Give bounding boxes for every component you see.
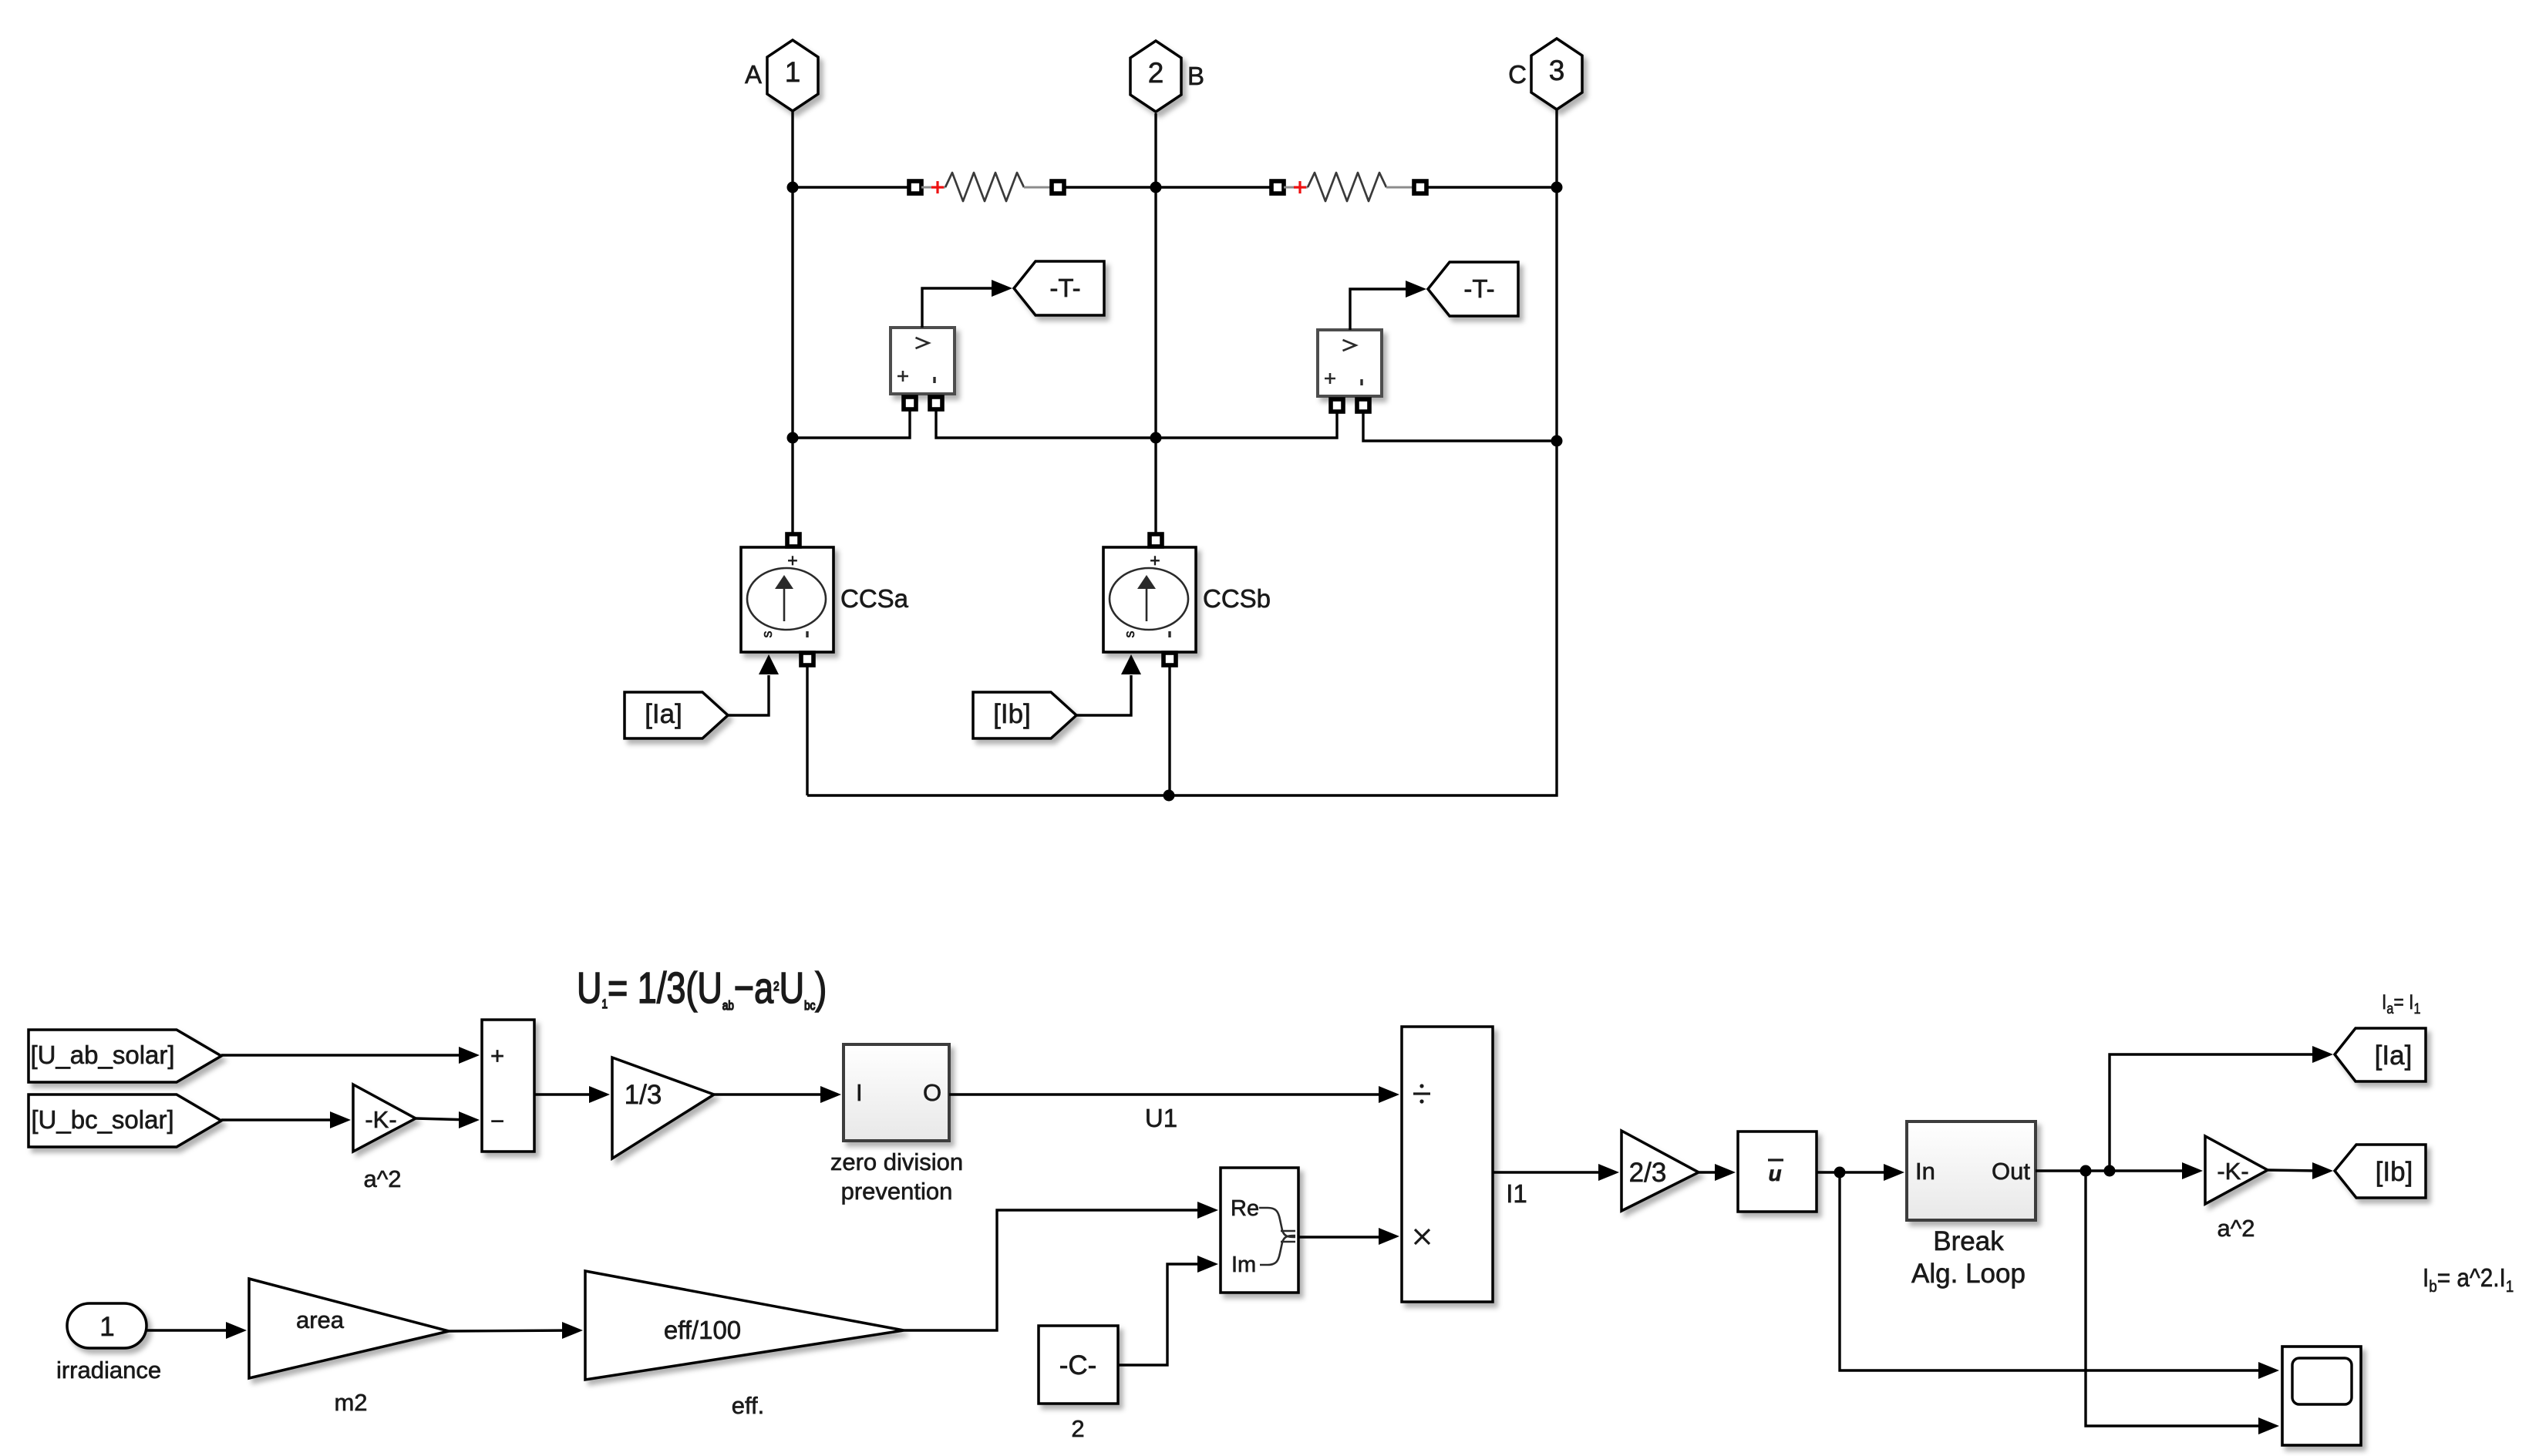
wire: branch down to scope input 1: [1840, 1172, 2271, 1370]
svg-text:-C-: -C-: [1059, 1350, 1097, 1380]
wire: sum to gain 1/3: [534, 1093, 602, 1095]
svg-text:-K-: -K-: [2217, 1158, 2248, 1185]
wire: irradiance to gain area: [146, 1329, 239, 1331]
wire: sensor row A segment: [793, 408, 910, 438]
junction: out branch to [Ia]: [2104, 1165, 2116, 1177]
junction: node A / sensor row: [787, 432, 799, 444]
wire: port A vertical (net A): [791, 110, 793, 535]
current source CCSb: [1103, 547, 1196, 652]
gain 2/3: [1621, 1131, 1699, 1211]
gain 1/3: [612, 1058, 714, 1158]
wire: branch down to scope input 2: [2086, 1171, 2271, 1426]
voltage sensor V1: [891, 328, 955, 394]
wire: Break out to gain a^2 (right): [2036, 1169, 2195, 1172]
svg-text:m2: m2: [334, 1389, 367, 1416]
svg-text:A: A: [745, 60, 762, 89]
svg-text:−: −: [490, 1108, 504, 1135]
wire: [Ib] to CCSb control input: [1076, 675, 1131, 715]
svg-text:I1: I1: [1506, 1179, 1527, 1208]
wire: gain a^2 to goto [Ib]: [2268, 1170, 2319, 1171]
svg-text:a^2: a^2: [2217, 1215, 2255, 1242]
goto tag [Ib] (output): [2335, 1145, 2426, 1198]
svg-text:area: area: [296, 1306, 345, 1333]
svg-text:CCSb: CCSb: [1203, 584, 1271, 613]
from tag [Ia]: [625, 692, 728, 738]
svg-text:[Ia]: [Ia]: [2375, 1041, 2413, 1071]
wire: resistor row A-B segment: [793, 186, 909, 188]
svg-text:[Ia]: [Ia]: [645, 699, 682, 729]
wire: gain eff/100 to Re input: [904, 1210, 1211, 1330]
current source CCSa: [741, 547, 833, 652]
svg-text:I: I: [856, 1079, 863, 1106]
svg-text:eff.: eff.: [732, 1392, 765, 1419]
junction: node B / sensor row: [1150, 432, 1162, 444]
wire: resistor row B-C segment: [1156, 186, 1272, 188]
wire: gain 2/3 to u-conj block: [1699, 1171, 1728, 1173]
wire: port C vertical (net C): [807, 108, 1557, 795]
junction: node C / sensor row: [1551, 435, 1563, 447]
wire: V1 output to goto tag: [922, 288, 996, 328]
svg-text:1/3: 1/3: [625, 1080, 662, 1110]
svg-text:O: O: [923, 1079, 941, 1106]
goto tag -T- (right): [1428, 262, 1518, 316]
svg-text:[Ib]: [Ib]: [2376, 1157, 2413, 1187]
wire: U_ab to sum +: [221, 1054, 472, 1056]
annotation Ia = I1: [2382, 990, 2421, 1017]
svg-text:1: 1: [99, 1312, 114, 1342]
goto tag -T- (left): [1014, 261, 1104, 315]
gain a^2 (-K-): [353, 1084, 416, 1152]
svg-text:s: s: [1122, 631, 1137, 638]
svg-text:B: B: [1187, 62, 1204, 90]
port square: CCSa out: [801, 653, 813, 665]
svg-text:Break: Break: [1933, 1226, 2004, 1256]
wire: complex to divide x input: [1298, 1236, 1392, 1238]
wire: port B vertical (net B): [1154, 113, 1157, 535]
input port 1 irradiance: [67, 1303, 146, 1348]
svg-text:2: 2: [1148, 57, 1164, 89]
svg-text:-T-: -T-: [1463, 274, 1494, 303]
svg-text:3: 3: [1549, 55, 1565, 86]
svg-text:eff/100: eff/100: [664, 1316, 741, 1344]
wire: sensor row B segment (V1 - port): [936, 408, 1156, 438]
svg-text:[U_bc_solar]: [U_bc_solar]: [31, 1105, 173, 1134]
sum block (+/-): [482, 1020, 534, 1152]
junction: bottom rail / CCSb: [1163, 790, 1175, 802]
resistor R1 (A-B): [909, 181, 921, 193]
svg-text:1: 1: [785, 56, 801, 88]
junction: node B / resistor row: [1150, 182, 1162, 193]
port square: CCSb out: [1163, 653, 1176, 665]
port B hexagon (2): [1130, 41, 1181, 112]
wire: CCSb output to bottom rail: [1168, 664, 1170, 795]
port square: CCSa top: [787, 534, 800, 546]
junction: u-conj output branch: [1834, 1167, 1846, 1179]
junction: node A / resistor row: [787, 182, 799, 193]
wire: sensor row C segment (V2 - port): [1363, 412, 1557, 441]
formula annotation U1 = 1/3(Uab - a2Ubc): [577, 963, 827, 1013]
svg-text:u: u: [1768, 1162, 1781, 1185]
block: complex conjugate (u bar): [1738, 1132, 1817, 1212]
wire: CCSa output to bottom rail: [806, 664, 808, 795]
junction: node C / resistor row: [1551, 182, 1563, 193]
wire: sensor row B segment (V2 + port): [1156, 412, 1337, 438]
svg-text:[Ib]: [Ib]: [993, 699, 1031, 729]
subsystem: Break Alg. Loop: [1907, 1121, 2036, 1220]
wire: gain a^2 to sum -: [416, 1118, 472, 1120]
wire: gain 1/3 to zero division prevention: [714, 1093, 833, 1095]
from tag [U_bc_solar]: [29, 1095, 221, 1147]
wire: V2 output to goto tag: [1350, 289, 1410, 330]
wire: divide to gain 2/3: [1493, 1171, 1611, 1173]
gain a^2 (right -K-): [2205, 1136, 2268, 1204]
constant -C- (2): [1039, 1326, 1118, 1404]
port C hexagon (3): [1531, 39, 1582, 109]
svg-text:U1: U1: [1145, 1104, 1177, 1132]
svg-text:U1= 1/3(Uab−a2Ubc): U1= 1/3(Uab−a2Ubc): [577, 963, 827, 1013]
wire: u-conj to Break Alg Loop: [1817, 1171, 1897, 1173]
annotation Ib = a^2.I1: [2423, 1264, 2514, 1296]
wire: gain area to gain eff/100: [449, 1330, 575, 1331]
wire: branch up to goto [Ia]: [2110, 1054, 2319, 1171]
wire: [Ia] to CCSa control input: [728, 675, 769, 715]
wire: U_bc to gain a^2: [221, 1118, 343, 1121]
svg-text:Alg. Loop: Alg. Loop: [1911, 1259, 2026, 1289]
svg-text:Out: Out: [1992, 1158, 2030, 1185]
svg-text:2/3: 2/3: [1629, 1158, 1667, 1188]
svg-text:-T-: -T-: [1049, 274, 1080, 302]
port A hexagon (1): [767, 40, 818, 111]
svg-text:Re: Re: [1231, 1196, 1259, 1221]
svg-text:2: 2: [1071, 1415, 1084, 1442]
svg-text:CCSa: CCSa: [840, 584, 909, 613]
divide block: [1402, 1027, 1493, 1302]
svg-text:In: In: [1915, 1158, 1935, 1185]
wire: -C- to Im input: [1118, 1264, 1211, 1365]
svg-text:a^2: a^2: [363, 1165, 401, 1192]
resistor R2 (B-C): [1271, 181, 1284, 193]
svg-text:[U_ab_solar]: [U_ab_solar]: [30, 1041, 174, 1069]
gain area (m2): [249, 1279, 449, 1378]
svg-text:prevention: prevention: [841, 1178, 953, 1205]
svg-text:-K-: -K-: [365, 1106, 396, 1133]
svg-text:s: s: [759, 631, 775, 638]
port square: CCSb top: [1150, 534, 1162, 546]
goto tag [Ia] (output): [2335, 1028, 2426, 1081]
junction: out branch to scope: [2080, 1165, 2092, 1177]
svg-text:+: +: [490, 1042, 504, 1069]
svg-text:zero division: zero division: [830, 1148, 963, 1175]
from tag [Ib]: [973, 692, 1076, 738]
block: Real-Imag to Complex: [1221, 1168, 1298, 1293]
from tag [U_ab_solar]: [29, 1030, 221, 1082]
svg-text:C: C: [1508, 60, 1527, 89]
gain eff/100: [585, 1271, 904, 1380]
scope block: [2282, 1347, 2361, 1445]
voltage sensor V2: [1318, 330, 1382, 396]
svg-text:irradiance: irradiance: [56, 1357, 161, 1384]
wire: U1 to divide block: [949, 1093, 1392, 1095]
svg-text:Im: Im: [1231, 1253, 1256, 1277]
subsystem: zero division prevention: [844, 1044, 949, 1141]
